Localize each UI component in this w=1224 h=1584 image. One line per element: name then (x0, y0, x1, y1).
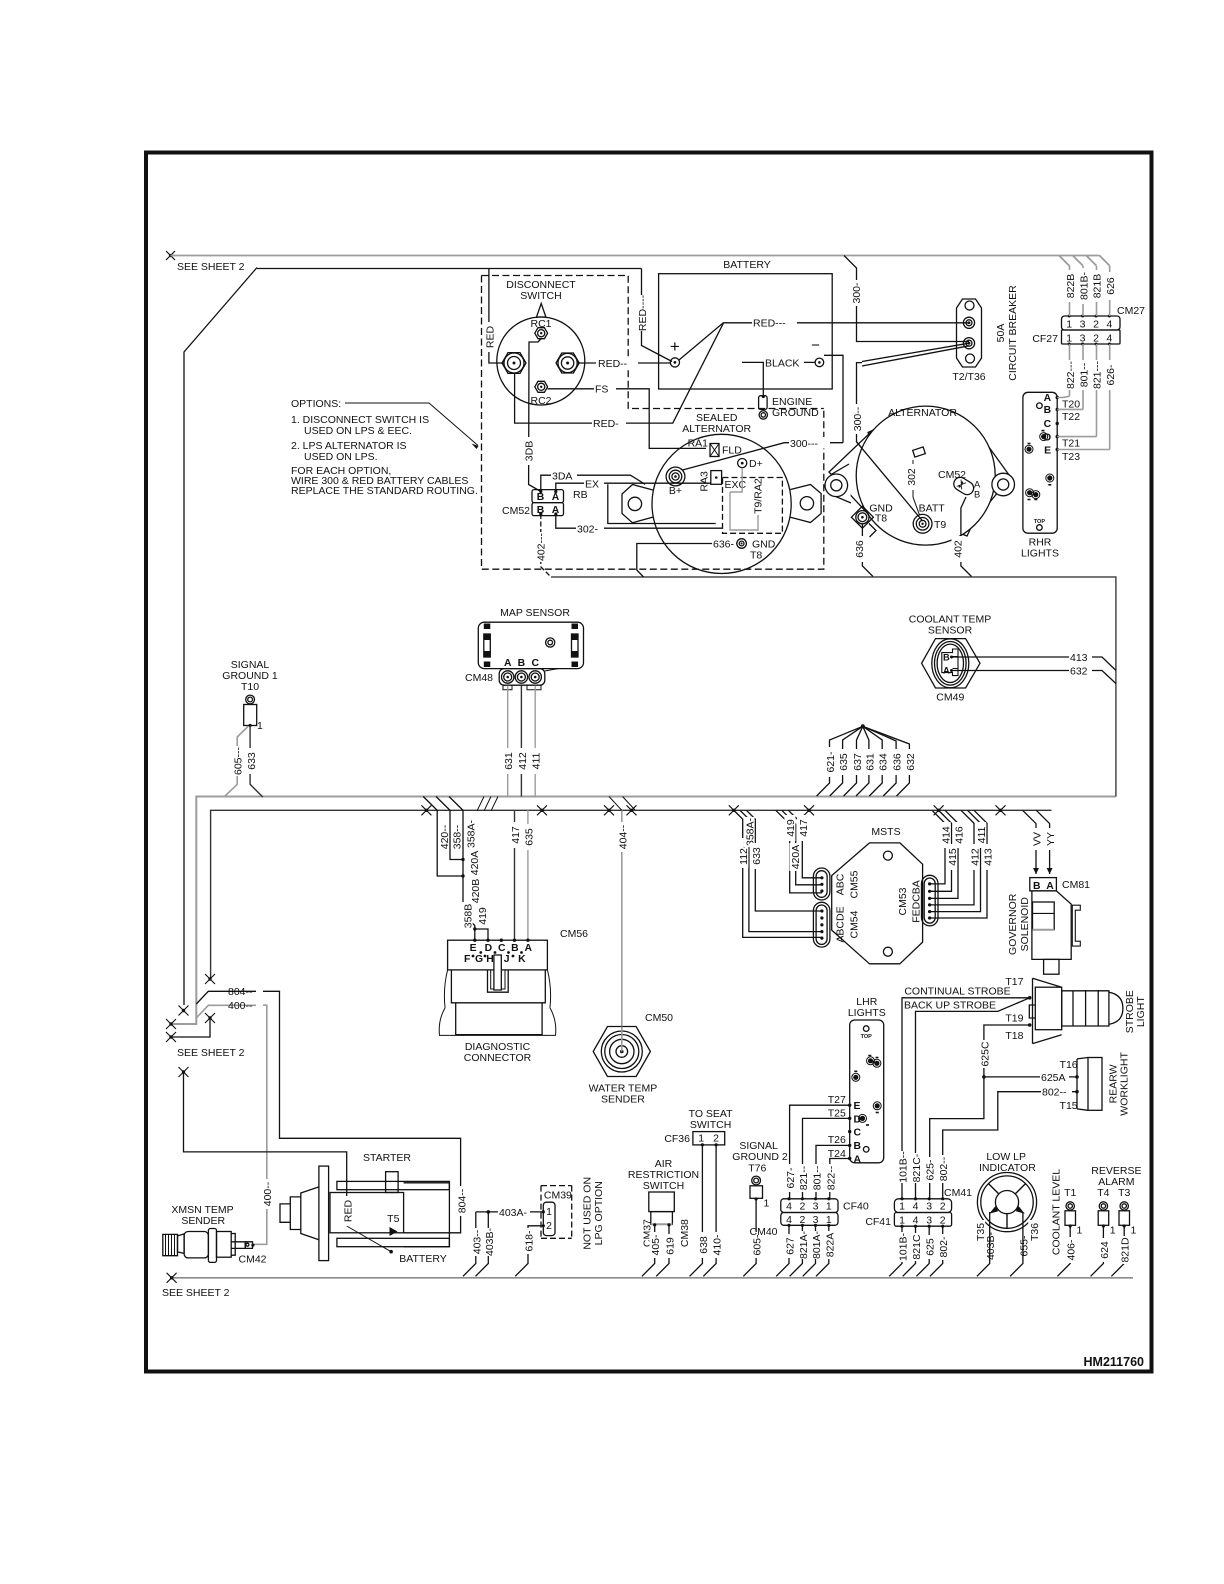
svg-text:626: 626 (1105, 277, 1117, 295)
svg-text:A: A (552, 492, 560, 503)
lamp panel LHR LIGHTS (828, 996, 886, 1165)
svg-text:821C-: 821C- (911, 1153, 923, 1182)
svg-text:C: C (854, 1128, 862, 1139)
svg-text:625: 625 (925, 1238, 937, 1256)
wire 411 (534, 686, 536, 797)
svg-text:626-: 626- (1105, 364, 1117, 386)
wire 804 (196, 991, 460, 1233)
svg-text:EXC: EXC (725, 479, 747, 491)
svg-text:B: B (1044, 405, 1052, 416)
wire 625A (984, 1076, 1077, 1078)
wire 413 (952, 657, 1116, 670)
svg-text:CM40: CM40 (749, 1226, 777, 1238)
border frame (146, 153, 1152, 1372)
svg-text:RED---: RED--- (753, 318, 786, 330)
svg-text:T23: T23 (1062, 451, 1080, 463)
wire 412 (520, 686, 522, 797)
svg-text:A: A (1046, 881, 1054, 892)
connector CF40 / CM40 (749, 1197, 868, 1238)
wire 636 (alt gnd down) (862, 524, 873, 577)
connector CM53 (922, 875, 939, 926)
svg-text:A: A (504, 658, 512, 669)
wire 822-- (LHR A to CF40-1) (830, 1159, 850, 1199)
svg-text:USED ON LPS & EEC.: USED ON LPS & EEC. (304, 425, 412, 437)
svg-text:605---: 605--- (233, 746, 245, 775)
alarm REVERSE ALARM T4 T3 (1091, 1165, 1142, 1276)
svg-text:CONNECTOR: CONNECTOR (464, 1052, 532, 1064)
wire 415 (930, 810, 952, 891)
svg-text:B: B (854, 1141, 862, 1152)
svg-text:T15: T15 (1060, 1100, 1078, 1112)
svg-text:B: B (518, 658, 526, 669)
wire CONTINUAL STROBE 101B (902, 998, 1030, 1199)
svg-text:A: A (854, 1154, 862, 1165)
svg-text:MAP SENSOR: MAP SENSOR (500, 607, 570, 619)
wire 632 (952, 671, 1116, 684)
svg-text:T3: T3 (1118, 1187, 1130, 1199)
svg-text:CM27: CM27 (1117, 305, 1145, 317)
left tab details (484, 624, 491, 630)
svg-text:1: 1 (764, 1198, 770, 1210)
svg-text:402: 402 (953, 540, 965, 558)
svg-text:625C: 625C (979, 1041, 991, 1067)
svg-text:BLACK: BLACK (765, 358, 799, 370)
wire 801B- (1082, 266, 1084, 316)
lamp STROBE LIGHT (904, 976, 1147, 1044)
wire: sheet2 diagonal to battery RED feed (184, 268, 257, 1006)
svg-text:B: B (974, 490, 980, 500)
svg-text:2: 2 (1093, 319, 1099, 331)
svg-text:3: 3 (813, 1201, 819, 1213)
svg-text:CM53: CM53 (897, 887, 909, 915)
svg-text:B: B (1033, 881, 1041, 892)
svg-text:403--: 403-- (471, 1229, 483, 1254)
svg-text:CM56: CM56 (560, 928, 588, 940)
svg-text:821B: 821B (1092, 274, 1104, 299)
indicator LOW LP INDICATOR (974, 1151, 1041, 1261)
strobe body (1029, 978, 1061, 1043)
wire 410- (703, 1145, 716, 1276)
svg-text:2: 2 (546, 1220, 552, 1232)
svg-text:RC1: RC1 (530, 318, 551, 330)
svg-text:SWITCH: SWITCH (690, 1119, 731, 1131)
terminal battery black (815, 358, 824, 367)
wire 801-- (LHR B to CF40-3) (816, 1145, 850, 1198)
wire 801 (1082, 344, 1084, 409)
terminal RA3 EXC (711, 471, 722, 485)
wire 822B (1069, 266, 1071, 316)
svg-text:419: 419 (785, 819, 797, 837)
wire 633 (250, 726, 263, 798)
svg-text:A: A (1044, 393, 1052, 404)
wire RED-- (right terminal to battery +) (577, 362, 670, 364)
left ear bolt (832, 464, 851, 503)
svg-text:821D: 821D (1120, 1237, 1132, 1263)
terminal battery + (670, 358, 679, 367)
svg-text:638: 638 (698, 1236, 710, 1254)
svg-text:TOP: TOP (861, 1034, 873, 1040)
svg-text:358A-: 358A- (466, 819, 478, 848)
svg-text:LPG OPTION: LPG OPTION (593, 1181, 605, 1245)
worklight REARW WORKLIGHT (1060, 1052, 1131, 1116)
wire 300--- (B+ up to right) (683, 443, 844, 470)
ground SIGNAL GROUND 2 T76 (732, 1140, 788, 1210)
svg-text:822--: 822-- (825, 1165, 837, 1190)
connector CM54 (813, 902, 830, 947)
solenoid body (1032, 891, 1071, 960)
bus line 1 (gray trunk) (171, 797, 1116, 1025)
lamp panel RHR LIGHTS (1021, 392, 1110, 559)
svg-text:414: 414 (941, 826, 953, 844)
svg-text:411: 411 (976, 826, 988, 843)
svg-text:101B--: 101B-- (898, 1151, 910, 1183)
svg-text:CM42: CM42 (238, 1254, 266, 1266)
svg-text:C: C (531, 658, 539, 669)
connector CM55 (813, 868, 830, 900)
svg-text:636: 636 (892, 753, 904, 771)
svg-text:CF27: CF27 (1032, 333, 1058, 345)
svg-text:619: 619 (665, 1237, 677, 1255)
wire 300- (top bus to CB), label (850, 280, 861, 306)
svg-text:634: 634 (878, 753, 890, 771)
svg-text:1: 1 (1110, 1225, 1116, 1237)
svg-text:632: 632 (905, 753, 917, 771)
terminal B+ (666, 467, 685, 486)
dashed inner box T9/RA2 (723, 478, 783, 534)
svg-text:ALTERNATOR: ALTERNATOR (888, 407, 957, 419)
svg-text:300--: 300-- (852, 406, 864, 431)
sensor COOLANT TEMP SENSOR CM49 (909, 614, 991, 704)
solenoid GOVERNOR SOLENOID CM81 (1007, 810, 1090, 974)
svg-text:802--: 802-- (938, 1156, 950, 1181)
svg-text:403A-: 403A- (499, 1207, 528, 1219)
svg-text:MSTS: MSTS (871, 826, 900, 838)
circuit breaker 50A T2/T36 (952, 285, 1019, 383)
wire 112-- (bus to CM54 E) (734, 810, 822, 937)
wire VV (1023, 810, 1036, 874)
wire 821-- (LHR D to CF40-2) (803, 1118, 850, 1198)
svg-text:404--: 404-- (617, 824, 629, 849)
lamp dots inside (1037, 403, 1043, 409)
svg-text:101B-: 101B- (898, 1232, 910, 1261)
svg-text:B: B (943, 653, 950, 663)
wire RED to starter (184, 1072, 347, 1225)
wire 420--/358--/358A- drop cluster (423, 797, 489, 941)
terminal right stud (556, 353, 579, 373)
svg-text:T26: T26 (828, 1134, 846, 1146)
svg-text:BATT: BATT (919, 503, 946, 515)
wire RED--- (vertical into battery +) (642, 269, 673, 362)
svg-text:4: 4 (786, 1201, 792, 1213)
svg-text:CM38: CM38 (679, 1219, 691, 1247)
connector CM56 DIAGNOSTIC CONNECTOR (439, 928, 588, 1064)
svg-text:CM49: CM49 (936, 692, 964, 704)
svg-text:D+: D+ (749, 458, 763, 470)
svg-text:801A-: 801A- (811, 1230, 823, 1259)
svg-text:VV: VV (1032, 832, 1044, 846)
svg-text:SWITCH: SWITCH (520, 290, 561, 302)
svg-text:633: 633 (246, 752, 258, 770)
svg-text:ABCDE: ABCDE (834, 906, 846, 942)
svg-text:OPTIONS:: OPTIONS: (291, 398, 341, 410)
svg-text:CF36: CF36 (664, 1133, 690, 1145)
terminal RC2 (535, 381, 548, 392)
svg-text:SOLENOID: SOLENOID (1019, 897, 1031, 952)
lower body (456, 1003, 542, 1035)
svg-text:EX: EX (585, 479, 599, 491)
svg-text:T8: T8 (875, 513, 887, 525)
switch AIR RESTRICTION SWITCH (628, 1158, 699, 1276)
wire 414 (CM53 F to bus) (930, 810, 945, 884)
svg-text:T21: T21 (1062, 438, 1080, 450)
terminal GND T8 (851, 506, 873, 528)
svg-text:358A-: 358A- (744, 817, 756, 846)
wire 635 (bus to CM56 A) (527, 810, 529, 940)
connector CM48 (465, 669, 559, 690)
wire 822 (CF27 to RHR A) (1069, 344, 1071, 396)
svg-text:GOVERNOR: GOVERNOR (1007, 893, 1019, 955)
wire labels above CF41 (897, 1151, 951, 1183)
wire 400 (196, 1005, 266, 1244)
wire RHR pin stubs (1057, 398, 1063, 450)
svg-text:C: C (1044, 419, 1052, 430)
battery (659, 259, 969, 389)
wire 636- (sealed gnd) (637, 544, 737, 578)
svg-text:400--: 400-- (228, 1000, 253, 1012)
wire 300 branch from top bus (844, 256, 969, 342)
svg-text:635: 635 (523, 828, 535, 846)
svg-text:T76: T76 (748, 1163, 766, 1175)
svg-text:T16: T16 (1060, 1059, 1078, 1071)
wire 411 (930, 810, 981, 911)
terminal RA1 FLD (710, 444, 719, 457)
svg-text:C: C (498, 943, 506, 954)
wire 618- (515, 1226, 543, 1277)
svg-text:SEE SHEET 2: SEE SHEET 2 (162, 1287, 230, 1299)
svg-text:821--: 821-- (798, 1165, 810, 1190)
svg-text:B+: B+ (669, 485, 682, 497)
svg-text:410-: 410- (712, 1234, 724, 1256)
junction wire fan (621-/635/637/631/634/636/632) (817, 724, 917, 796)
svg-text:625A: 625A (1041, 1072, 1066, 1084)
svg-text:1: 1 (257, 720, 263, 732)
ground ENGINE GROUND (759, 363, 819, 419)
right ear bolt (992, 473, 1015, 496)
svg-text:632: 632 (1070, 666, 1088, 678)
wire BACK UP STROBE 821C (916, 998, 1030, 1199)
svg-text:2: 2 (940, 1201, 946, 1213)
svg-text:420A: 420A (469, 851, 481, 876)
svg-text:T8: T8 (750, 550, 762, 562)
svg-text:CIRCUIT BREAKER: CIRCUIT BREAKER (1007, 285, 1019, 381)
svg-text:625-: 625- (925, 1159, 937, 1181)
svg-text:627-: 627- (785, 1167, 797, 1189)
wire 417 (bus to CM56 B) (514, 810, 516, 940)
body middle (451, 970, 545, 1003)
svg-text:3DA: 3DA (552, 471, 572, 483)
svg-text:637: 637 (852, 753, 864, 771)
svg-text:SEE SHEET 2: SEE SHEET 2 (177, 1047, 245, 1059)
wire 821B (1096, 266, 1098, 316)
svg-text:801B-: 801B- (1078, 271, 1090, 300)
svg-text:T10: T10 (241, 681, 259, 693)
svg-text:J: J (504, 954, 510, 965)
svg-text:CM48: CM48 (465, 672, 493, 684)
svg-text:411: 411 (531, 752, 543, 769)
svg-text:1: 1 (899, 1201, 905, 1213)
sender CM50 WATER TEMP SENDER (589, 1012, 674, 1106)
svg-text:SEE SHEET 2: SEE SHEET 2 (177, 261, 245, 273)
svg-text:RED: RED (343, 1199, 355, 1222)
svg-text:302-: 302- (577, 524, 599, 536)
svg-text:B: B (511, 943, 519, 954)
wire trunk: top gray bus y=255 (171, 256, 1110, 267)
svg-text:412: 412 (970, 848, 982, 866)
svg-text:403B-: 403B- (484, 1227, 496, 1256)
wire 605- (743, 1199, 756, 1276)
svg-text:821A-: 821A- (798, 1230, 810, 1259)
switch TO SEAT SWITCH CF36 (664, 1108, 733, 1147)
wire 413 (930, 810, 987, 918)
svg-text:4: 4 (913, 1201, 919, 1213)
svg-text:417: 417 (510, 826, 522, 844)
svg-text:801--: 801-- (812, 1165, 824, 1190)
wire YY (1036, 810, 1049, 874)
svg-text:A: A (525, 943, 533, 954)
svg-text:RB: RB (573, 489, 588, 501)
svg-text:50A: 50A (995, 324, 1007, 343)
svg-text:BACK UP STROBE: BACK UP STROBE (904, 1000, 996, 1012)
connector CM52 (option) (502, 489, 588, 517)
svg-text:402---: 402--- (536, 532, 548, 561)
svg-text:822B: 822B (1065, 274, 1077, 299)
wire D+ drop (730, 468, 758, 530)
svg-text:822A: 822A (824, 1233, 836, 1258)
svg-text:E: E (470, 943, 477, 954)
svg-text:T19: T19 (1005, 1013, 1023, 1025)
svg-text:SENDER: SENDER (601, 1094, 645, 1106)
wire 403-- (463, 1212, 476, 1276)
svg-text:804--: 804-- (228, 986, 253, 998)
svg-text:T5: T5 (387, 1213, 399, 1225)
svg-text:1: 1 (1077, 1225, 1083, 1237)
terminal BATT T9 (913, 514, 932, 533)
wires below CM40 (776, 1225, 829, 1276)
svg-text:1: 1 (698, 1133, 704, 1145)
svg-text:302: 302 (906, 468, 918, 486)
svg-text:821---: 821--- (1092, 360, 1104, 389)
svg-text:2: 2 (940, 1214, 946, 1226)
svg-text:LIGHTS: LIGHTS (1021, 548, 1059, 560)
svg-text:412: 412 (517, 752, 529, 770)
svg-text:802-: 802- (938, 1236, 950, 1258)
svg-text:413: 413 (1070, 652, 1088, 664)
wire EX (556, 483, 711, 491)
wire 3DA (541, 475, 645, 491)
svg-text:D: D (485, 943, 493, 954)
mounting diamond (829, 430, 1011, 532)
junction dot 625A (982, 1075, 986, 1079)
svg-text:G: G (475, 954, 483, 965)
left ear (622, 485, 653, 523)
svg-text:SENSOR: SENSOR (928, 625, 973, 637)
svg-text:RED--: RED-- (598, 358, 628, 370)
screw (546, 638, 555, 647)
svg-text:WORKLIGHT: WORKLIGHT (1119, 1052, 1131, 1116)
wire battery pointer fan (679, 323, 969, 360)
svg-text:T25: T25 (828, 1108, 846, 1120)
wire 626- (1109, 344, 1111, 450)
svg-text:RED: RED (485, 325, 497, 348)
svg-text:4: 4 (913, 1214, 919, 1226)
disconnect switch (497, 279, 585, 407)
small slot (913, 447, 926, 457)
svg-text:3: 3 (926, 1201, 932, 1213)
svg-text:RA3: RA3 (699, 471, 711, 492)
wire RB routing (608, 484, 716, 523)
X arrows bottom-left sheet2 (166, 974, 215, 1077)
wire 302- (556, 514, 722, 528)
svg-text:+: + (670, 337, 680, 356)
svg-text:K: K (518, 954, 526, 965)
svg-text:B: B (537, 492, 545, 503)
svg-text:358--: 358-- (452, 824, 464, 849)
wire 420A (to CM55 B) (782, 810, 822, 885)
relay module MSTS (813, 826, 938, 964)
svg-text:403B-: 403B- (985, 1231, 997, 1260)
wire 416 (930, 810, 958, 898)
motor STARTER (280, 1152, 468, 1265)
svg-text:ALTERNATOR: ALTERNATOR (682, 423, 751, 435)
svg-text:804--: 804-- (456, 1188, 468, 1213)
wire 655- (1010, 1212, 1023, 1276)
svg-text:COOLANT LEVEL: COOLANT LEVEL (1050, 1169, 1062, 1255)
svg-text:822---: 822--- (1065, 360, 1077, 389)
wire 358A- (bus to CM54 D) (740, 810, 822, 931)
svg-text:H: H (486, 954, 494, 965)
svg-text:1: 1 (826, 1201, 832, 1213)
svg-text:REARW: REARW (1107, 1064, 1119, 1103)
wire crossing jogs between buses (477, 797, 498, 811)
svg-text:T9/RA2: T9/RA2 (753, 478, 765, 514)
svg-text:RED-: RED- (593, 418, 619, 430)
wire RED (left feed) (489, 269, 504, 364)
bottom bus (gray) (172, 1277, 1133, 1279)
wire 627- (LHR E to CF40-4) (790, 1105, 850, 1199)
svg-text:633: 633 (751, 847, 763, 865)
sealed alternator (608, 412, 843, 577)
svg-text:FEDCBA: FEDCBA (910, 880, 922, 923)
wire 821 (1096, 344, 1098, 437)
wire 633 (bus to CM54 A) (746, 810, 822, 911)
wire 802-- (943, 1092, 1077, 1199)
svg-text:E: E (1044, 445, 1051, 456)
svg-text:419: 419 (477, 907, 489, 925)
connector CM39 (not used on LPG) (541, 1177, 605, 1250)
wires below CF41 (889, 1226, 943, 1276)
svg-text:CM52: CM52 (938, 469, 966, 481)
svg-text:CM81: CM81 (1062, 879, 1090, 891)
svg-text:420B: 420B (470, 879, 482, 904)
X junction marks on bus 2 (421, 805, 1005, 815)
svg-text:BATTERY: BATTERY (399, 1253, 446, 1265)
svg-text:HM211760: HM211760 (1084, 1355, 1145, 1369)
wire 605 (224, 727, 248, 798)
svg-text:420--: 420-- (439, 824, 451, 849)
svg-text:LIGHTS: LIGHTS (848, 1007, 886, 1019)
svg-text:1: 1 (546, 1206, 552, 1218)
dashed option enclosure (482, 276, 824, 409)
